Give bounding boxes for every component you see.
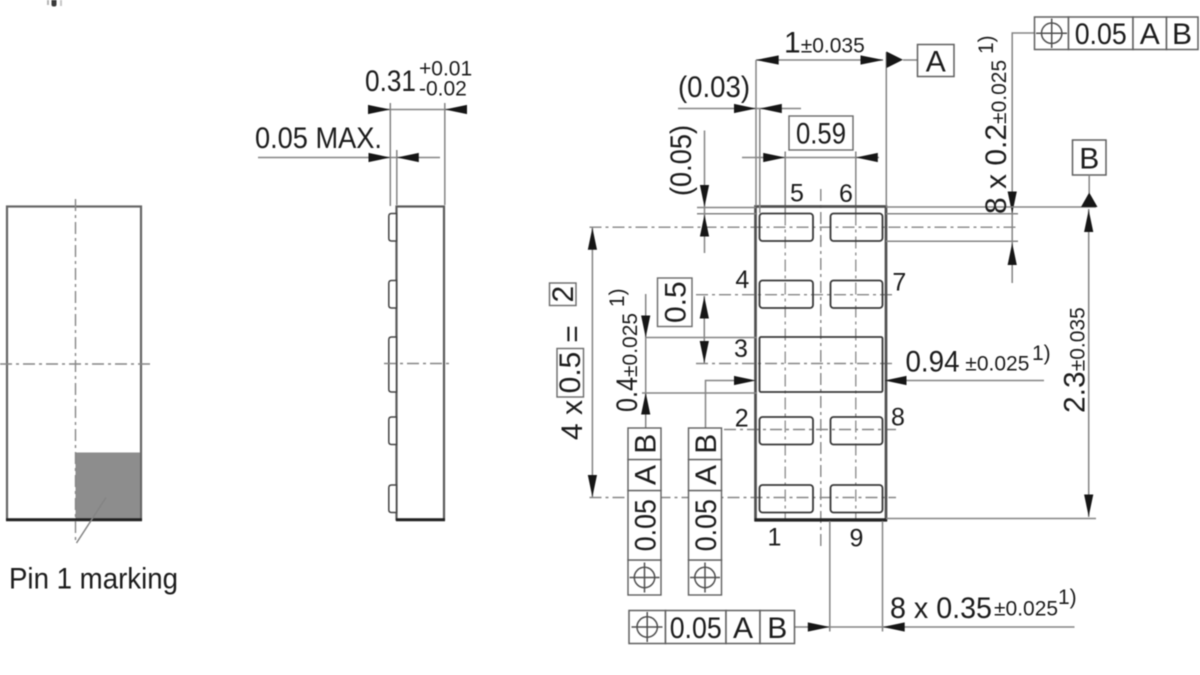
bottom view package outline	[756, 207, 887, 521]
text 0.5 boxed rotated	[658, 278, 693, 327]
dim 0.31 extension line right	[444, 103, 446, 205]
svg-text:±0.025: ±0.025	[965, 353, 1029, 376]
pad 2	[760, 417, 814, 445]
dim (0.05) vertical dimension line	[704, 131, 706, 254]
svg-text:9: 9	[850, 525, 864, 553]
FCF2 position symbol	[690, 563, 720, 593]
pad 3 top edge extension line	[646, 337, 757, 339]
vertical FCF 2	[689, 428, 722, 595]
svg-text:2: 2	[547, 286, 580, 303]
svg-text:4 x: 4 x	[556, 400, 589, 440]
dim 0.94 leader from FCF2	[706, 381, 735, 429]
package top edge extension line right	[886, 206, 1096, 208]
row 2/8 centerline	[724, 429, 896, 431]
dim (0.05) arrow up-pointing	[700, 215, 709, 237]
side view body outline	[397, 207, 445, 520]
vertical FCF 1	[628, 428, 661, 595]
dim (0.03) arrow right-pointing	[734, 104, 756, 113]
dim 8x0.2 arrow down-pointing	[1008, 192, 1017, 214]
pad top edge extension line left	[697, 213, 756, 215]
side view bottom edge (thick)	[396, 518, 445, 521]
package right edge extension line	[885, 52, 887, 206]
svg-text:Pin 1 marking: Pin 1 marking	[9, 563, 178, 596]
dim 0.59 frame box	[789, 116, 853, 150]
top view horizontal centerline	[0, 363, 151, 365]
side view terminal bump row 1	[389, 485, 397, 513]
dim (0.05) arrow down-pointing	[700, 185, 709, 207]
svg-text:4: 4	[735, 266, 749, 294]
svg-text:A: A	[1140, 18, 1160, 51]
svg-text:B: B	[767, 612, 787, 645]
row 1/9 centerline	[590, 497, 897, 499]
svg-text:(0.05): (0.05)	[665, 125, 698, 196]
top-right FCF position symbol	[1036, 19, 1067, 49]
dim (0.03) arrow left-pointing	[760, 104, 782, 113]
top view vertical centerline	[75, 199, 77, 542]
pin 1 marking leader line	[77, 498, 107, 544]
svg-text:±0.025: ±0.025	[994, 598, 1058, 621]
top view bottom edge (thick)	[6, 518, 142, 521]
svg-text:B: B	[1079, 143, 1099, 176]
svg-text:A: A	[926, 46, 946, 79]
package top edge extension line left	[697, 207, 756, 209]
side view horizontal centerline	[384, 363, 451, 365]
pad 8	[831, 417, 883, 445]
side view terminal bump row 2	[389, 417, 397, 445]
pad 6	[831, 214, 883, 242]
svg-text:=: =	[556, 325, 589, 343]
datum A leader	[903, 59, 918, 61]
bottom FCF position symbol	[632, 612, 663, 642]
dim 0.5 arrow up-pointing	[700, 297, 709, 319]
dim 4x0.5 arrow down-pointing	[588, 475, 597, 497]
bottom feature control frame	[629, 611, 795, 644]
FCF1 position symbol	[630, 563, 660, 593]
svg-text:8 x 0.35: 8 x 0.35	[890, 592, 992, 625]
pad left edge extension line	[759, 109, 761, 214]
svg-text:0.31: 0.31	[365, 65, 416, 98]
svg-text:A: A	[733, 612, 753, 645]
dim 0.31 arrow left-pointing	[445, 105, 467, 114]
dim 0.59 arrow left-pointing	[856, 153, 878, 162]
left pad column centerline	[784, 152, 786, 214]
dim 8x0.2 leader line	[1012, 33, 1034, 283]
dim 0.5 vertical dimension line	[703, 296, 705, 364]
svg-text:7: 7	[892, 268, 906, 296]
svg-text:2: 2	[735, 405, 749, 433]
row 5/6 centerline	[590, 226, 1019, 228]
dim 2.3 arrow up-pointing	[1084, 210, 1093, 232]
dim 8x0.35 arrow right-pointing	[808, 622, 830, 631]
dim 0.94 dimension line right	[907, 380, 1045, 382]
svg-text:A: A	[629, 465, 662, 485]
dim 1 arrow right-pointing	[861, 55, 884, 64]
dim 0.59 dimension line	[742, 157, 879, 159]
datum B triangle	[1081, 193, 1098, 208]
cropped glyph artifact top-left	[52, 0, 57, 7]
svg-text:1): 1)	[1032, 342, 1051, 365]
svg-text:1): 1)	[1058, 586, 1077, 609]
pad 4	[760, 281, 814, 309]
svg-text:B: B	[629, 434, 662, 454]
dim 0.31 arrow right-pointing	[368, 105, 390, 114]
dim 8x0.35 dimension line	[795, 626, 1075, 628]
dim 0.4 arrow up-pointing	[641, 393, 650, 415]
svg-text:0.05: 0.05	[670, 612, 722, 645]
dim (0.03) dimension line	[678, 108, 801, 110]
svg-text:0.5: 0.5	[660, 281, 693, 323]
svg-text:5: 5	[790, 180, 804, 208]
pad 7	[831, 281, 883, 309]
svg-text:B: B	[1172, 18, 1192, 51]
svg-text:A: A	[690, 465, 723, 485]
svg-text:3: 3	[734, 335, 748, 363]
dim 0.59 arrow right-pointing	[763, 153, 785, 162]
side view terminal bump row 3 (tall)	[389, 337, 397, 392]
svg-text:6: 6	[839, 180, 853, 208]
dim 0.05 MAX dimension line	[258, 157, 440, 159]
package vertical centerline	[820, 189, 822, 546]
dim 0.05 MAX extension line	[396, 150, 398, 205]
package left edge extension line	[755, 60, 757, 206]
top view body outline	[7, 207, 141, 520]
svg-text:8: 8	[891, 404, 905, 432]
pad 1	[760, 485, 814, 513]
package bottom edge extension line right	[886, 518, 1096, 520]
dim 2.3 vertical dimension line	[1088, 209, 1090, 517]
svg-text:0.05: 0.05	[1075, 18, 1127, 51]
dim 4x0.5 vertical dimension line	[591, 227, 593, 497]
side view terminal bump row 5	[389, 214, 397, 242]
pad 9 left edge extension line	[829, 521, 831, 632]
dim 0.31 dimension line	[368, 109, 467, 111]
pad 3 (wide)	[760, 337, 883, 392]
datum A box	[918, 45, 955, 77]
dim 0.31 extension line left	[389, 103, 391, 206]
pad 3 centerline horizontal	[696, 363, 896, 365]
dim 0.4 vertical line with FCF1 leader	[645, 294, 647, 428]
side view terminal bump row 4	[389, 281, 397, 309]
datum B box	[1073, 140, 1107, 175]
dim 1 +-0.035 dimension line	[756, 59, 883, 61]
bottom view package bottom edge (thick)	[755, 518, 888, 521]
pin 1 marking gray area	[76, 453, 141, 519]
dim 0.5 arrow down-pointing	[700, 341, 709, 363]
pad top edge extension line right	[886, 213, 1018, 215]
pad 5	[760, 214, 814, 242]
datum B leader	[1088, 175, 1090, 193]
svg-text:0.05: 0.05	[629, 499, 662, 551]
pad 9	[831, 485, 883, 513]
dim 8x0.35 arrow left-pointing	[883, 622, 905, 631]
dim 8x0.2 arrow up-pointing	[1008, 243, 1017, 265]
text 2 boxed rotated	[550, 283, 577, 306]
pad 9 right edge extension line	[882, 521, 884, 632]
svg-text:(0.03): (0.03)	[678, 71, 750, 104]
dim 0.94 arrow left-pointing	[885, 376, 907, 385]
datum A triangle	[887, 52, 904, 69]
svg-text:0.05: 0.05	[690, 499, 723, 551]
dim 0.05 MAX arrow left-pointing	[397, 153, 419, 162]
svg-text:0.5: 0.5	[554, 352, 587, 394]
svg-text:1: 1	[768, 524, 782, 552]
right pad column centerline	[855, 152, 857, 214]
svg-text:B: B	[690, 434, 723, 454]
dim 0.05 MAX arrow right-pointing	[369, 153, 391, 162]
dim 0.4 arrow down-pointing	[641, 316, 650, 338]
svg-text:0.05 MAX.: 0.05 MAX.	[255, 122, 382, 155]
dim 1 arrow left-pointing	[756, 55, 779, 64]
svg-text:0.94: 0.94	[906, 345, 960, 378]
dim 2.3 arrow down-pointing	[1084, 495, 1093, 517]
pad 3 bottom edge extension line	[642, 392, 757, 394]
row 4/7 centerline	[696, 294, 896, 296]
text 0.5 boxed rotated (chain)	[557, 349, 584, 398]
svg-text:-0.02: -0.02	[419, 78, 467, 101]
pad bottom edge extension line right	[886, 240, 1018, 242]
dim 4x0.5 arrow up-pointing	[588, 228, 597, 250]
svg-text:0.59: 0.59	[796, 118, 846, 151]
dim 0.94 arrow right-pointing	[734, 376, 756, 385]
top-right feature control frame	[1035, 17, 1199, 50]
